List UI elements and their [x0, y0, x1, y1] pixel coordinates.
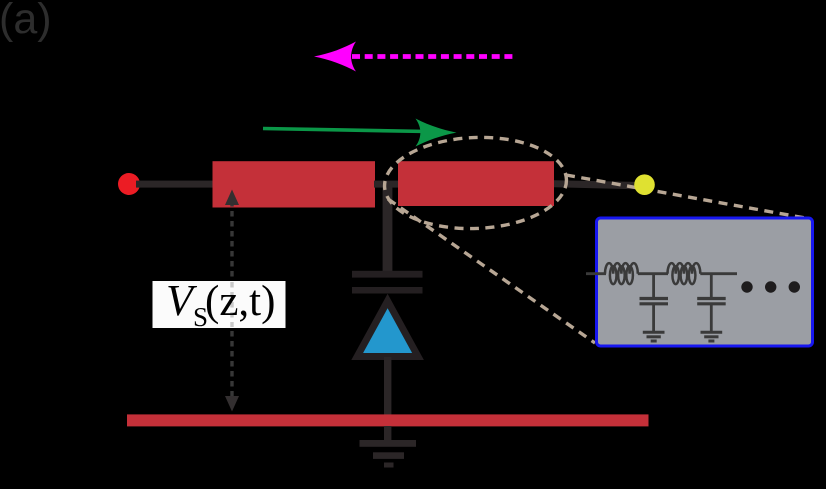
node: right port (yellow dot) [634, 174, 655, 195]
wire: junction down to varactor [383, 183, 393, 272]
wire: left port to line section 1 [136, 181, 214, 188]
wire: inset input stub [586, 272, 606, 275]
wire: section 2 to right port [554, 180, 640, 189]
svg-text:(z,t): (z,t) [205, 278, 275, 325]
varactor C: bottom plate [352, 287, 423, 294]
varactor diode D (blue triangle) [357, 301, 418, 357]
inductor L2 [668, 263, 701, 284]
transmission-line section 2 (red block) [398, 161, 554, 206]
V_S(z,t) dashed measurement arrow [225, 190, 239, 412]
wire: L2 to continuation [700, 272, 737, 275]
node: left port (red dot) [118, 173, 140, 195]
inset: LC ladder model box [597, 218, 813, 346]
dashed arrow segment visible through label box [230, 282, 233, 327]
ground (C1) [643, 332, 665, 341]
ground (C2) [701, 332, 723, 341]
backward-wave arrow (magenta, dashed, pointing left) [314, 42, 516, 72]
callout tangent line (lower) [388, 199, 595, 343]
capacitor C2 [697, 274, 726, 331]
transmission-line section 1 (red block) [213, 161, 376, 207]
ground symbol (main) [360, 440, 417, 447]
varactor C: top plate [352, 271, 423, 278]
capacitor C1 [640, 274, 669, 331]
svg-text:(a): (a) [0, 0, 52, 43]
wire: junction between sections [374, 181, 399, 188]
forward-wave arrow (green, pointing right) [263, 119, 457, 147]
ellipsis dots (inset continuation) [741, 281, 752, 292]
wire: varactor to ground plane [384, 357, 391, 415]
wire: L1 to L2 [638, 272, 668, 275]
wire: ground plane to ground symbol [384, 426, 391, 441]
label box V_S(z,t) [153, 281, 286, 328]
zoom callout ellipse (dashed) [383, 134, 569, 232]
callout tangent line (upper) [566, 175, 808, 219]
inset circuit [586, 263, 737, 341]
inductor L1 [605, 263, 638, 284]
ground plane (red bar) [127, 414, 649, 426]
